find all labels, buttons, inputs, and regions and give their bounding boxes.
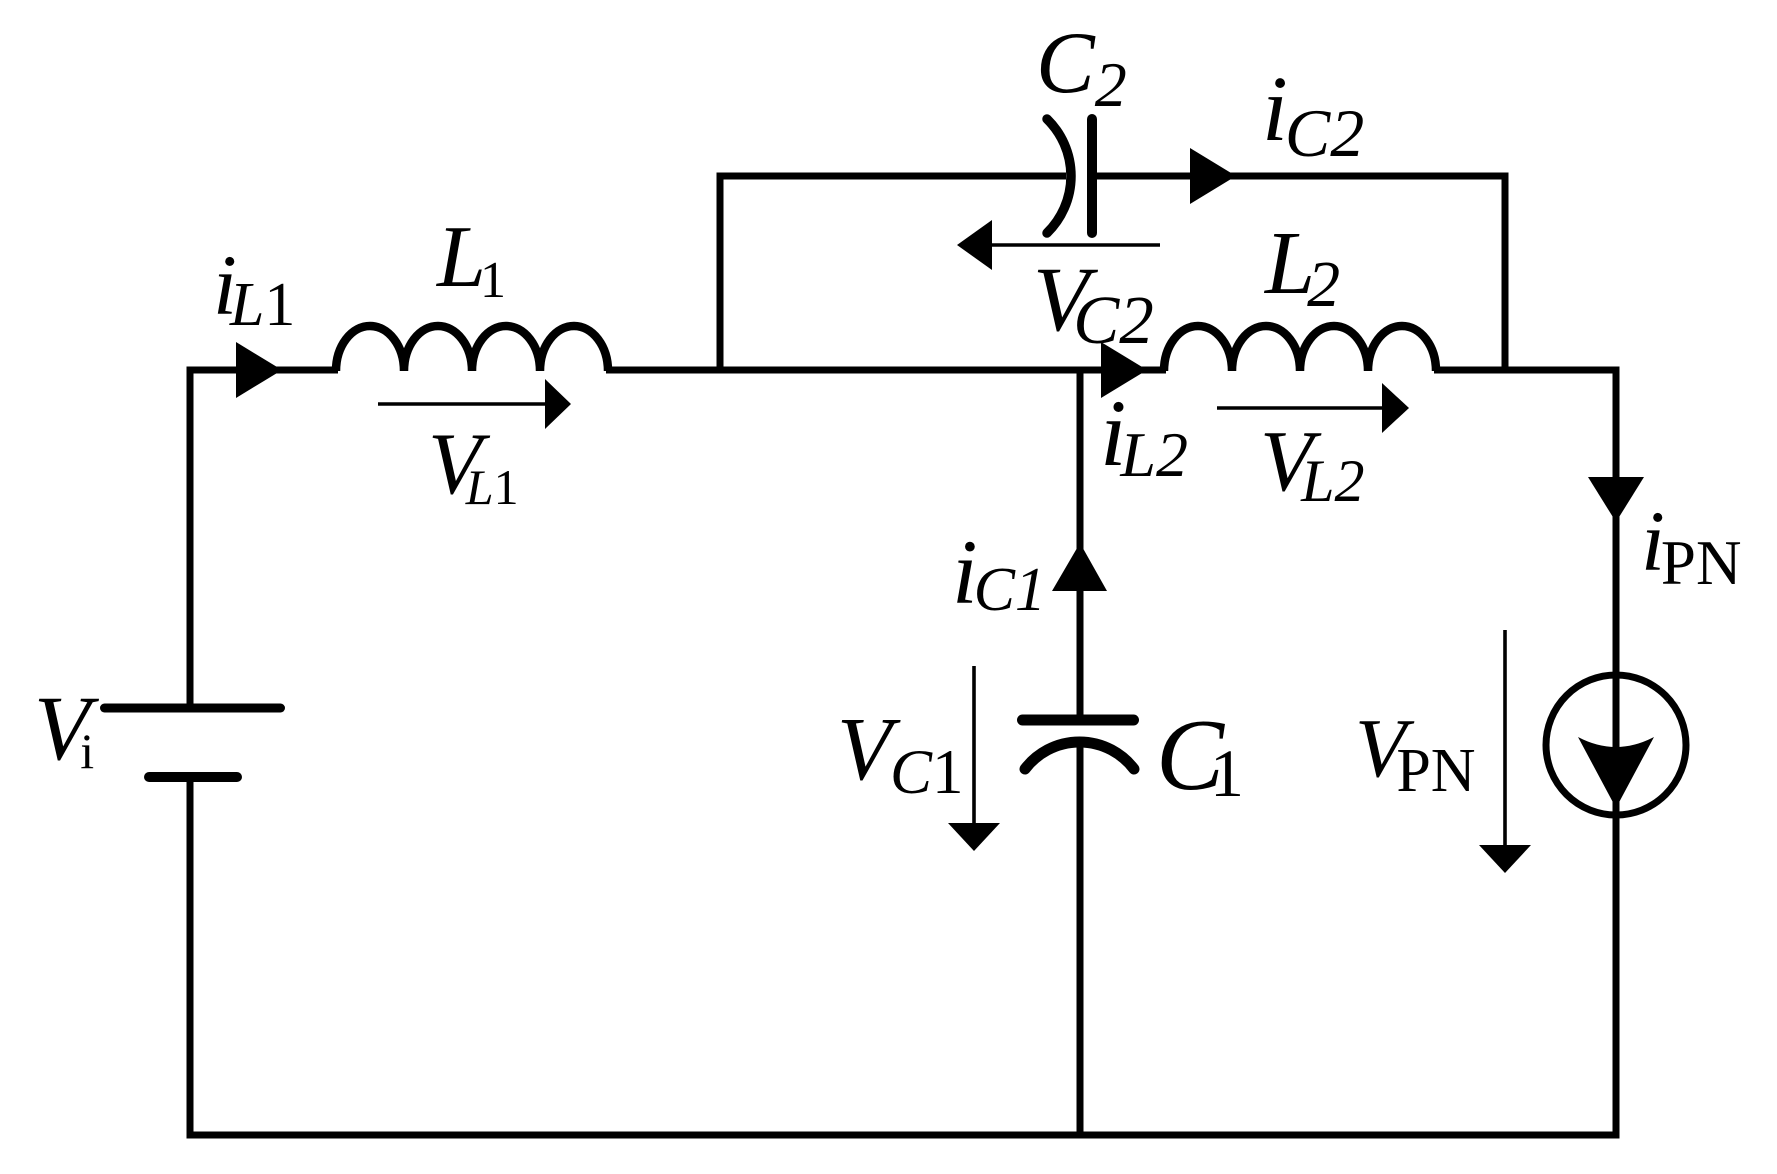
wire top loop left horizontal to C2 [717, 173, 1067, 180]
wire main horizontal rail [187, 367, 339, 374]
wire bottom rail [187, 1132, 1620, 1139]
battery Vi short plate [149, 772, 237, 782]
capacitor C2 curved plate [1047, 119, 1071, 233]
arrowhead iPN [1588, 477, 1644, 522]
inductor L2 [1164, 326, 1436, 371]
current source arrowhead [1578, 737, 1654, 808]
wire C1 branch lower [1077, 742, 1084, 1135]
wire top loop left vertical [717, 173, 724, 367]
wire right vertical (through current source) [1613, 367, 1620, 1139]
arrowhead iL1 [236, 342, 282, 398]
capacitor C1 curved plate [1025, 742, 1134, 769]
wire C1 branch upper [1077, 370, 1084, 722]
current source circle [1546, 675, 1686, 815]
wire top loop right horizontal from C2 [1092, 173, 1509, 180]
arrowhead iC2 [1190, 148, 1236, 204]
wire left vertical lower (Vi to bottom rail) [187, 777, 194, 1139]
battery Vi long plate [105, 704, 281, 713]
arrow VL1 [378, 402, 547, 406]
capacitor C2 straight plate [1087, 119, 1097, 233]
wire left vertical upper (Vi to main rail) [187, 367, 194, 709]
arrow VC1 [972, 666, 976, 824]
arrow VL2 [1217, 406, 1384, 410]
wire top loop right vertical [1502, 173, 1509, 371]
arrowhead iL2 [1101, 342, 1147, 398]
capacitor C1 straight plate [1023, 715, 1134, 726]
arrowhead iC1 [1052, 543, 1107, 591]
inductor L1 [336, 326, 608, 371]
arrow VC2 [990, 243, 1160, 247]
arrow VPN [1503, 630, 1507, 846]
svg-text:Vi: Vi [34, 677, 100, 779]
